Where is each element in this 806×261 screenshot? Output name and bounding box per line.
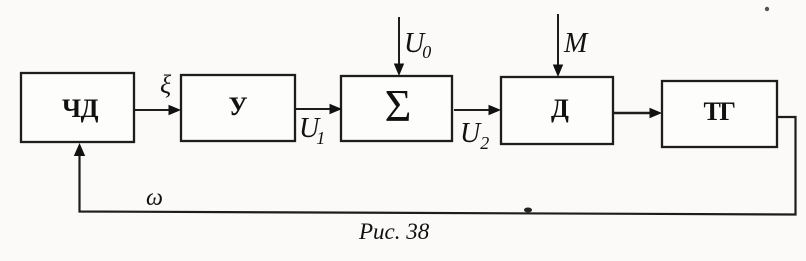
- svg-text:ЧД: ЧД: [62, 94, 99, 123]
- label ξ: [160, 70, 172, 99]
- label U1: [299, 113, 325, 148]
- svg-text:ξ: ξ: [160, 70, 172, 99]
- speck top right: [765, 7, 769, 11]
- svg-text:ω: ω: [146, 185, 163, 211]
- wire ЧД to У: [134, 105, 181, 115]
- wire Σ to Д: [454, 105, 501, 115]
- block ЧД (frequency detector): [21, 73, 134, 142]
- caption Рис. 38: [358, 219, 430, 244]
- svg-text:ТГ: ТГ: [704, 97, 736, 126]
- block ТГ (tachogenerator): [662, 81, 777, 147]
- wire U0 input into Σ: [394, 17, 404, 76]
- block Д (motor): [501, 77, 613, 144]
- svg-text:Σ: Σ: [385, 80, 412, 131]
- speck on feedback line: [524, 208, 532, 213]
- label U0: [404, 28, 431, 62]
- label U2: [460, 118, 489, 153]
- wire Д to ТГ: [613, 108, 662, 118]
- label M: [563, 28, 589, 59]
- svg-text:У: У: [228, 92, 247, 121]
- wire M input into Д: [553, 14, 563, 77]
- block Σ (summer): [341, 76, 452, 141]
- wire feedback from ТГ around to ЧД: [74, 117, 796, 215]
- wire У to Σ: [295, 104, 342, 114]
- label ω: [146, 185, 163, 211]
- block У (amplifier): [181, 75, 295, 141]
- svg-text:Рис. 38: Рис. 38: [358, 219, 430, 244]
- svg-text:Д: Д: [551, 94, 569, 123]
- svg-text:M: M: [563, 28, 589, 59]
